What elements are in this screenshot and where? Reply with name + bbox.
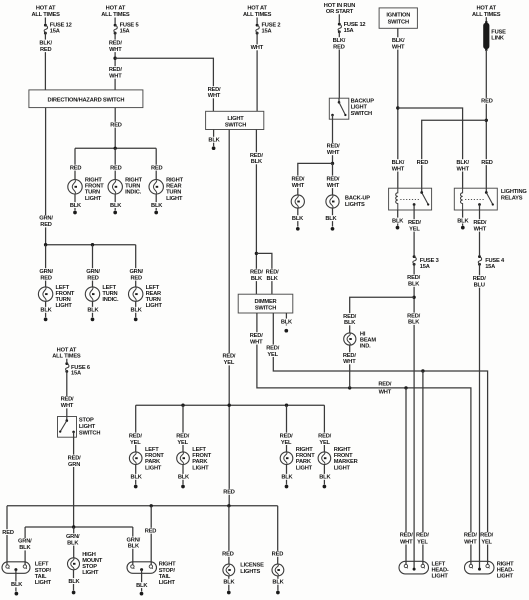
ground lf park 1 light bbox=[134, 485, 138, 489]
wire label BLK/WHT (left relay) bbox=[390, 159, 406, 172]
svg-text:BLK: BLK bbox=[251, 159, 263, 165]
wire label BLK (rf marker) bbox=[318, 474, 331, 481]
label FUSE 6 15A bbox=[71, 365, 90, 377]
wire label RED/YEL (dimmer out) bbox=[265, 345, 281, 358]
ignition switch bbox=[379, 8, 417, 28]
wire drop right front turn bbox=[74, 148, 76, 180]
svg-text:WHT: WHT bbox=[379, 389, 392, 395]
wire label BLK (right front turn) bbox=[69, 202, 82, 209]
svg-text:YEL: YEL bbox=[409, 226, 420, 232]
wire BLK left backup to ground bbox=[297, 208, 299, 227]
label HI BEAM IND. bbox=[360, 331, 376, 349]
svg-text:FRONT: FRONT bbox=[85, 184, 104, 190]
ground right rear turn light bbox=[154, 211, 158, 215]
svg-text:LIGHT: LIGHT bbox=[432, 574, 449, 580]
svg-text:RED: RED bbox=[151, 165, 163, 171]
label RIGHT FRONT PARK LIGHT bbox=[296, 447, 315, 471]
wire RED/WHT from hi beam ind bbox=[349, 345, 351, 388]
svg-text:RED/: RED/ bbox=[464, 533, 477, 539]
svg-text:15A: 15A bbox=[120, 29, 130, 35]
backup light switch bbox=[329, 98, 349, 119]
label RIGHT REAR TURN LIGHT bbox=[166, 178, 183, 202]
svg-text:WHT: WHT bbox=[392, 166, 405, 172]
svg-text:LIGHT: LIGHT bbox=[85, 196, 102, 202]
fuse F2 15A bbox=[256, 24, 260, 35]
svg-text:REAR: REAR bbox=[166, 184, 181, 190]
wire label RED/BLK (lower) bbox=[406, 313, 422, 326]
svg-text:BEAM: BEAM bbox=[360, 337, 376, 343]
svg-text:BLK: BLK bbox=[281, 319, 293, 325]
wire fuse 12 top stub bbox=[44, 18, 46, 24]
wire RED/WHT from dimmer (low beam) bbox=[257, 313, 471, 565]
svg-text:SWITCH: SWITCH bbox=[388, 20, 409, 26]
svg-text:BLK: BLK bbox=[281, 475, 293, 481]
wire drop to license light 1 bbox=[228, 506, 230, 564]
svg-text:BLK: BLK bbox=[251, 276, 263, 282]
wire label RED (right rear turn) bbox=[149, 165, 165, 172]
svg-text:BLK: BLK bbox=[40, 308, 52, 314]
svg-text:GRN/: GRN/ bbox=[127, 537, 141, 543]
svg-text:RIGHT: RIGHT bbox=[497, 562, 514, 568]
svg-text:RIGHT: RIGHT bbox=[166, 178, 183, 184]
wire BLK left turn indic to ground bbox=[92, 301, 94, 317]
svg-text:YEL: YEL bbox=[224, 360, 235, 366]
ground right front turn light bbox=[73, 211, 77, 215]
svg-text:RED/: RED/ bbox=[250, 270, 263, 276]
svg-text:RELAYS: RELAYS bbox=[501, 196, 523, 202]
wire BLK from light switch bbox=[213, 130, 215, 147]
svg-text:RED: RED bbox=[130, 275, 142, 281]
lamp left front park light 2 bbox=[177, 452, 190, 465]
ground lf park 2 light bbox=[181, 485, 185, 489]
fuse F4 15A bbox=[478, 255, 482, 266]
svg-text:LICENSE: LICENSE bbox=[240, 563, 264, 569]
wire left turn bus bbox=[46, 244, 136, 246]
svg-text:GRN/: GRN/ bbox=[86, 269, 100, 275]
junction park node B bbox=[228, 404, 231, 407]
svg-text:TURN: TURN bbox=[56, 297, 71, 303]
svg-text:RED: RED bbox=[2, 530, 14, 536]
label BACK-UP LIGHTS bbox=[345, 195, 370, 208]
wire label RED (tail feed) bbox=[221, 489, 237, 496]
svg-text:LEFT: LEFT bbox=[432, 562, 446, 568]
svg-text:TURN: TURN bbox=[146, 297, 161, 303]
ground high mount bbox=[72, 591, 76, 595]
wire BLK/RED to direction/hazard switch bbox=[44, 33, 46, 90]
svg-text:WHT: WHT bbox=[474, 226, 487, 232]
junction left turn node A bbox=[44, 243, 47, 246]
junction RED/BLK node bbox=[412, 296, 415, 299]
wire RED/BLK branch to dimmer bbox=[256, 253, 272, 294]
svg-text:BLK: BLK bbox=[70, 203, 82, 209]
wire label RED/YEL (lf park 2) bbox=[175, 433, 191, 446]
svg-text:FRONT: FRONT bbox=[192, 453, 211, 459]
wire label RED/WHT (left headlight) bbox=[400, 532, 413, 545]
svg-text:RED: RED bbox=[87, 275, 99, 281]
svg-text:RED/: RED/ bbox=[473, 220, 486, 226]
svg-text:WHT: WHT bbox=[109, 74, 122, 80]
wire label RED/WHT (hi beam) bbox=[342, 352, 358, 365]
wire GRN/RED from hazard switch bbox=[45, 108, 47, 245]
label RIGHT HEADLIGHT bbox=[497, 562, 514, 580]
lamp high mount stop light bbox=[68, 558, 80, 570]
label LEFT REAR TURN LIGHT bbox=[146, 285, 163, 309]
wire BLK license 2 to ground bbox=[277, 576, 279, 591]
wire drop to left stop/tail (GRN/BLK) bbox=[24, 527, 26, 565]
svg-text:RED/: RED/ bbox=[327, 144, 340, 150]
svg-text:WHT: WHT bbox=[61, 403, 74, 409]
wire label RED/BLK (upper) bbox=[406, 275, 422, 288]
lamp right rear turn light bbox=[149, 180, 163, 194]
wire label RED/WHT (upper) bbox=[108, 40, 124, 53]
svg-text:LIGHT: LIGHT bbox=[146, 303, 163, 309]
wire BLK/WHT from ignition switch bbox=[397, 28, 399, 188]
svg-text:LEFT: LEFT bbox=[192, 447, 206, 453]
svg-text:LIGHTING: LIGHTING bbox=[501, 189, 527, 195]
svg-text:BLK: BLK bbox=[457, 218, 469, 224]
svg-text:BLK: BLK bbox=[223, 580, 235, 586]
wire fuse 2 top stub bbox=[256, 18, 258, 24]
svg-text:RED: RED bbox=[40, 47, 52, 53]
wire RED branch to left relay bbox=[422, 120, 487, 192]
svg-text:LIGHT: LIGHT bbox=[35, 580, 52, 586]
wire label BLK (left turn indic) bbox=[86, 307, 99, 314]
ground dimmer switch bbox=[284, 329, 288, 333]
wire BLK lf park 2 to ground bbox=[182, 465, 184, 485]
svg-text:BACK-UP: BACK-UP bbox=[345, 195, 370, 201]
svg-text:IGNITION: IGNITION bbox=[386, 13, 410, 19]
junction BLK/WHT node bbox=[396, 106, 399, 109]
svg-text:FRONT: FRONT bbox=[296, 453, 315, 459]
wire label GRN/RED (main) bbox=[38, 215, 54, 228]
svg-text:RED/: RED/ bbox=[408, 220, 421, 226]
wire drop to high mount stop bbox=[73, 527, 75, 558]
wire label RED/YEL (left relay out) bbox=[407, 219, 423, 232]
wire BLK left rear turn to ground bbox=[135, 301, 137, 317]
svg-text:BLK: BLK bbox=[68, 579, 80, 585]
wire BLK right rear turn to ground bbox=[155, 194, 157, 211]
svg-text:RED: RED bbox=[481, 99, 493, 105]
svg-text:15A: 15A bbox=[71, 371, 81, 377]
svg-text:RED/: RED/ bbox=[416, 533, 429, 539]
wire label RED/WHT (lower) bbox=[108, 66, 124, 79]
wire BLK license 1 to ground bbox=[228, 576, 230, 591]
svg-text:15A: 15A bbox=[420, 264, 430, 270]
wire label RED/YEL (lf park 1) bbox=[128, 433, 144, 446]
wire label RED/WHT (right headlight) bbox=[464, 532, 477, 545]
svg-text:BLK: BLK bbox=[131, 475, 143, 481]
wire label GRN/BLK (right stop) bbox=[126, 537, 142, 550]
lamp right front turn light bbox=[68, 180, 82, 194]
wire fuse link top stub bbox=[485, 17, 487, 23]
ground right turn indic light bbox=[113, 211, 117, 215]
svg-text:DIMMER: DIMMER bbox=[255, 299, 277, 305]
svg-text:GRN/: GRN/ bbox=[39, 269, 53, 275]
svg-text:RED/: RED/ bbox=[291, 176, 304, 182]
wire label RED/BLK (dimmer in 1) bbox=[249, 269, 264, 282]
wire label RED/WHT (right backup) bbox=[325, 176, 341, 189]
svg-text:BLK: BLK bbox=[87, 308, 99, 314]
lamp left rear turn light bbox=[129, 287, 143, 301]
svg-text:BLK/: BLK/ bbox=[392, 160, 405, 166]
wire RED/BLK from light switch bbox=[255, 130, 257, 295]
svg-text:BLK: BLK bbox=[136, 583, 148, 589]
wire label RED/WHT (stop sw) bbox=[59, 396, 75, 409]
wire label BLK (lf park 1) bbox=[130, 474, 143, 481]
svg-text:LIGHT: LIGHT bbox=[497, 574, 514, 580]
svg-text:OR START: OR START bbox=[326, 9, 354, 15]
wire label RED/YEL (rf park) bbox=[278, 433, 294, 446]
wire label RED/WHT (left backup) bbox=[290, 176, 306, 189]
wire drop right rear turn bbox=[155, 148, 157, 180]
relay left (lighting relay) bbox=[389, 188, 432, 210]
label LEFT FRONT PARK LIGHT 2 bbox=[192, 447, 211, 471]
svg-text:RED/: RED/ bbox=[250, 153, 263, 159]
svg-text:HEAD-: HEAD- bbox=[497, 568, 514, 574]
label HOT AT ALL TIMES (fuse 6) bbox=[52, 347, 81, 359]
svg-text:LIGHT: LIGHT bbox=[296, 465, 313, 471]
svg-text:15A: 15A bbox=[485, 264, 495, 270]
svg-text:LEFT: LEFT bbox=[146, 285, 160, 291]
wire label RED/WHT (light switch input) bbox=[206, 86, 222, 99]
wire label RED (right relay) bbox=[479, 159, 495, 166]
dimmer switch bbox=[238, 294, 293, 313]
wire RED/WHT branch to light switch bbox=[115, 58, 213, 111]
svg-text:RED: RED bbox=[40, 222, 52, 228]
ground left rear turn light bbox=[134, 318, 138, 322]
svg-text:BLK: BLK bbox=[325, 216, 337, 222]
svg-text:RED: RED bbox=[481, 160, 493, 166]
wire RED/YEL left relay to fuse 3 bbox=[413, 210, 415, 255]
svg-text:TURN: TURN bbox=[85, 190, 100, 196]
wire label BLK (right relay) bbox=[456, 218, 469, 225]
svg-text:BLK: BLK bbox=[128, 544, 140, 550]
svg-text:RED/: RED/ bbox=[407, 275, 420, 281]
svg-text:WHT: WHT bbox=[343, 359, 356, 365]
svg-text:BLK: BLK bbox=[272, 580, 284, 586]
svg-text:RED: RED bbox=[110, 165, 122, 171]
right headlight bbox=[465, 561, 495, 574]
junction park node A bbox=[181, 404, 184, 407]
wire tail light bus bbox=[7, 505, 278, 507]
label HOT AT ALL TIMES (fuse 5) bbox=[101, 5, 130, 18]
svg-text:IND.: IND. bbox=[360, 344, 371, 350]
wire drop to left headlight high bbox=[422, 371, 424, 565]
wire label RED (fuse link) bbox=[479, 98, 495, 105]
label LEFT FRONT PARK LIGHT 1 bbox=[145, 447, 164, 471]
lamp left front turn light bbox=[38, 287, 52, 301]
svg-text:RED: RED bbox=[417, 160, 429, 166]
svg-text:GRN/: GRN/ bbox=[18, 539, 32, 545]
wire drop left rear turn bbox=[135, 245, 137, 287]
wire label RED/BLU bbox=[471, 275, 487, 288]
svg-text:LIGHTS: LIGHTS bbox=[345, 202, 365, 208]
wire label RED/WHT (dimmer out) bbox=[248, 332, 264, 345]
svg-text:RED/: RED/ bbox=[400, 533, 413, 539]
svg-text:GRN/: GRN/ bbox=[129, 269, 143, 275]
wire fuse 5 top stub bbox=[114, 18, 116, 24]
wire RED/BLU from fuse 4 to right headlight bbox=[479, 264, 481, 569]
junction left headlight low node bbox=[404, 386, 407, 389]
svg-text:RED/: RED/ bbox=[343, 314, 356, 320]
wire RED/GRN from stop light switch bbox=[73, 437, 75, 527]
wire RED/WHT right relay to fuse 4 bbox=[479, 210, 481, 255]
svg-text:RIGHT: RIGHT bbox=[296, 447, 313, 453]
ground left turn indic light bbox=[91, 318, 95, 322]
svg-text:TURN: TURN bbox=[166, 190, 181, 196]
svg-text:TURN: TURN bbox=[102, 291, 117, 297]
wire stop light bus bbox=[25, 526, 133, 528]
svg-text:RED/: RED/ bbox=[280, 433, 293, 439]
svg-text:RED/: RED/ bbox=[61, 397, 74, 403]
svg-text:FUSE 5: FUSE 5 bbox=[120, 22, 139, 28]
wire RED/YEL from dimmer (high beam) bbox=[273, 313, 487, 565]
svg-text:RED/: RED/ bbox=[208, 87, 221, 93]
wire RED/WHT branch to left backup light bbox=[298, 163, 333, 195]
wire label RED (license 2) bbox=[270, 551, 286, 558]
wire drop to right stop/tail (GRN/BLK) bbox=[132, 527, 134, 565]
svg-text:WHT: WHT bbox=[392, 44, 405, 50]
svg-text:FUSE 12: FUSE 12 bbox=[50, 22, 72, 28]
svg-text:RIGHT: RIGHT bbox=[85, 178, 102, 184]
wire RED from hazard switch bbox=[114, 108, 116, 149]
svg-text:BLK: BLK bbox=[110, 203, 122, 209]
junction left headlight high node bbox=[421, 369, 424, 372]
svg-text:RED/: RED/ bbox=[378, 381, 391, 387]
fuse F3 15A bbox=[413, 255, 417, 266]
svg-text:INDIC.: INDIC. bbox=[102, 297, 119, 303]
svg-text:ALL TIMES: ALL TIMES bbox=[243, 12, 272, 18]
lamp left turn indicator bbox=[85, 287, 99, 301]
wire label BLK (license 2) bbox=[272, 579, 285, 586]
wire label GRN/RED (left turn indic) bbox=[85, 268, 101, 281]
wire BLK right stop/tail to ground bbox=[141, 570, 143, 592]
svg-text:RED: RED bbox=[272, 552, 284, 558]
svg-text:DIRECTION/HAZARD SWITCH: DIRECTION/HAZARD SWITCH bbox=[48, 97, 125, 103]
wire label BLK (rf park) bbox=[280, 474, 293, 481]
wire label RED/YEL (left headlight) bbox=[416, 532, 429, 545]
junction left turn node B bbox=[91, 243, 94, 246]
direction/hazard switch bbox=[29, 90, 143, 108]
svg-text:RED/: RED/ bbox=[176, 433, 189, 439]
ground left backup bbox=[296, 227, 300, 231]
svg-text:LIGHT: LIGHT bbox=[166, 196, 183, 202]
svg-text:BLK: BLK bbox=[19, 545, 31, 551]
svg-text:HOT AT: HOT AT bbox=[36, 5, 56, 11]
svg-text:BLK/: BLK/ bbox=[456, 160, 469, 166]
svg-text:WHT: WHT bbox=[327, 150, 340, 156]
wire drop left turn indic bbox=[92, 245, 94, 287]
svg-text:15A: 15A bbox=[344, 28, 354, 34]
junction hi-beam ind node bbox=[348, 386, 351, 389]
wire label RED/YEL (rf marker) bbox=[317, 433, 333, 446]
fuse F5 15A bbox=[114, 24, 118, 35]
junction tail bus node A bbox=[150, 504, 153, 507]
svg-text:RED: RED bbox=[70, 165, 82, 171]
svg-text:GRN/: GRN/ bbox=[66, 534, 80, 540]
wire label RED/WHT (right relay out) bbox=[472, 219, 488, 232]
svg-text:RED/: RED/ bbox=[250, 333, 263, 339]
wire label RED/BLK (dimmer in 2) bbox=[265, 269, 280, 282]
svg-text:WHT: WHT bbox=[250, 339, 263, 345]
wire label BLK/RED (backup) bbox=[331, 37, 347, 50]
wire drop to license light 2 bbox=[277, 506, 279, 564]
svg-text:WHT: WHT bbox=[251, 45, 264, 51]
wire label BLK (dimmer) bbox=[280, 319, 293, 326]
wire RED/WHT to right backup light bbox=[332, 163, 334, 195]
svg-text:RED/: RED/ bbox=[129, 433, 142, 439]
wire label RED (right turn indic) bbox=[108, 165, 124, 172]
svg-text:MARKER: MARKER bbox=[334, 459, 358, 465]
svg-text:YEL: YEL bbox=[130, 440, 141, 446]
svg-text:HI: HI bbox=[360, 331, 366, 337]
svg-text:RIGHT: RIGHT bbox=[334, 447, 351, 453]
svg-text:FUSE 2: FUSE 2 bbox=[262, 22, 281, 28]
wire label BLK (left front turn) bbox=[40, 307, 53, 314]
fusible link bbox=[483, 21, 489, 51]
svg-text:BLK/: BLK/ bbox=[39, 40, 52, 46]
wire BLK right backup to ground bbox=[332, 208, 334, 227]
wire RED/YEL long from light switch bbox=[228, 130, 230, 506]
svg-text:RED/: RED/ bbox=[222, 354, 235, 360]
svg-text:SWITCH: SWITCH bbox=[79, 431, 100, 437]
ground license 2 bbox=[276, 591, 280, 595]
svg-text:WHT: WHT bbox=[109, 47, 122, 53]
svg-text:GRN/: GRN/ bbox=[39, 216, 53, 222]
label RIGHT FRONT TURN LIGHT bbox=[85, 178, 104, 202]
wire BLK rf park to ground bbox=[286, 465, 288, 485]
svg-text:YEL: YEL bbox=[267, 352, 278, 358]
label STOP LIGHT SWITCH bbox=[79, 417, 100, 436]
wire BLK right front turn to ground bbox=[74, 194, 76, 211]
svg-text:RED/: RED/ bbox=[480, 533, 493, 539]
ground rf marker light bbox=[323, 485, 327, 489]
wire BLK high mount to ground bbox=[73, 570, 75, 591]
wire BLK/WHT branch to right relay bbox=[398, 108, 463, 188]
label FUSE 12 15A (run) bbox=[344, 22, 366, 34]
svg-text:LIGHT: LIGHT bbox=[82, 570, 99, 576]
svg-text:RIGHT: RIGHT bbox=[159, 562, 176, 568]
svg-text:FUSE: FUSE bbox=[491, 29, 506, 35]
svg-text:BLK/: BLK/ bbox=[392, 38, 405, 44]
svg-text:LIGHT: LIGHT bbox=[351, 105, 368, 111]
label LIGHTING RELAYS bbox=[501, 189, 527, 202]
wire label BLK/RED bbox=[38, 40, 54, 53]
ground left stop/tail bbox=[15, 592, 19, 596]
relay right (lighting relay) bbox=[454, 188, 497, 210]
ground right backup bbox=[331, 227, 335, 231]
wire label GRN/RED (left rear turn) bbox=[128, 268, 144, 281]
ground right relay bbox=[461, 226, 465, 230]
wire drop left front turn bbox=[45, 245, 47, 287]
svg-text:SWITCH: SWITCH bbox=[255, 305, 276, 311]
wire label BLK (light switch) bbox=[208, 137, 221, 144]
label HOT IN RUN OR START bbox=[324, 3, 355, 15]
lamp right back-up light bbox=[326, 195, 339, 208]
lamp left back-up light bbox=[291, 195, 304, 208]
wire label RED (turn feed) bbox=[108, 122, 124, 129]
svg-text:LEFT: LEFT bbox=[35, 562, 49, 568]
wire BLK from dimmer bbox=[285, 313, 287, 325]
svg-text:BACKUP: BACKUP bbox=[351, 98, 375, 104]
svg-text:15A: 15A bbox=[262, 29, 272, 35]
svg-text:STOP: STOP bbox=[79, 417, 94, 423]
svg-text:ALL TIMES: ALL TIMES bbox=[472, 12, 501, 18]
svg-text:ALL TIMES: ALL TIMES bbox=[101, 12, 130, 18]
svg-text:RED: RED bbox=[110, 123, 122, 129]
svg-text:STOP/: STOP/ bbox=[35, 568, 52, 574]
svg-text:HIGH: HIGH bbox=[82, 552, 96, 558]
